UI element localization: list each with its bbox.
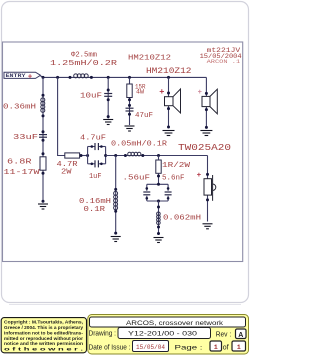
svg-text:Date of Issue :: Date of Issue : bbox=[89, 345, 131, 352]
sheet outer border bbox=[2, 2, 249, 303]
node junction (108.2,77) bbox=[107, 76, 110, 79]
wire woofer1 branch x=168.5 bbox=[168, 77, 170, 128]
svg-text:+: + bbox=[197, 172, 202, 180]
node junction (168.5,77) bbox=[167, 76, 170, 79]
svg-text:11-17W: 11-17W bbox=[4, 169, 41, 177]
node (108,99.7) bbox=[107, 98, 110, 101]
inductor 0.05mH horizontal bbox=[128, 152, 141, 156]
node (207.5,199.9) bbox=[206, 198, 209, 201]
svg-text:Page :: Page : bbox=[175, 345, 203, 352]
svg-text:HM210Z12: HM210Z12 bbox=[128, 54, 171, 62]
svg-text:mitted or reproduced without p: mitted or reproduced without prior bbox=[4, 336, 83, 341]
svg-text:notice and the written permiss: notice and the written permission bbox=[4, 341, 83, 346]
cap bridge .56uF/5.6nF frame bbox=[147, 184, 168, 201]
svg-text:33uF: 33uF bbox=[13, 134, 38, 142]
wire tweeter branch bbox=[207, 156, 209, 222]
node (158.5,184.3) bbox=[157, 183, 160, 186]
svg-text:information not to be edited/t: information not to be edited/trans- bbox=[4, 330, 84, 335]
ground left bbox=[38, 204, 48, 209]
svg-text:1: 1 bbox=[237, 344, 241, 352]
node (43,140) bbox=[42, 139, 45, 142]
node (108,116.6) bbox=[107, 115, 110, 118]
wire top rail bbox=[41, 76, 207, 77]
node (142.8,155.5) bbox=[141, 154, 144, 157]
svg-text:Y12-201/00 - 030: Y12-201/00 - 030 bbox=[128, 331, 197, 338]
svg-text:4W: 4W bbox=[136, 89, 144, 96]
node (158.5,227) bbox=[157, 226, 160, 229]
svg-text:2W: 2W bbox=[61, 169, 72, 177]
svg-text:1R/2W: 1R/2W bbox=[162, 162, 191, 170]
cap bridge 4.7uF/1uF frame bbox=[88, 147, 106, 164]
capacitor 1uF (bottom branch) bbox=[95, 160, 98, 167]
node junction (57.6,77) bbox=[56, 76, 59, 79]
svg-text:47uF: 47uF bbox=[135, 112, 153, 120]
title block yellow panel bbox=[88, 315, 249, 355]
node (158.5,233.5) bbox=[157, 232, 160, 235]
svg-text:0.062mH: 0.062mH bbox=[163, 214, 201, 222]
wire midrange shunt x=115.7 bbox=[115, 156, 117, 235]
node junction (91.4,77) bbox=[90, 76, 93, 79]
inductor 0.062mH vertical bbox=[157, 212, 161, 225]
node (125.4,155.5) bbox=[124, 154, 127, 157]
inductor 0.16mH vertical bbox=[114, 191, 118, 209]
node (158.5,207) bbox=[157, 206, 160, 209]
node (115.7,189.4) bbox=[114, 188, 117, 191]
svg-text:Copyright : M.Tsourtakis, Athe: Copyright : M.Tsourtakis, Athens, bbox=[4, 320, 83, 325]
wire bridge2 to coil bbox=[158, 201, 160, 235]
svg-text:0.36mH: 0.36mH bbox=[3, 103, 36, 111]
node (43,173) bbox=[42, 172, 45, 175]
wire 4.7R to bridge bbox=[80, 155, 88, 157]
svg-text:10uF: 10uF bbox=[80, 93, 102, 101]
node (108,90) bbox=[107, 89, 110, 92]
tweeter TW025A20 bbox=[204, 175, 216, 201]
page box 1 bbox=[210, 341, 222, 351]
wire 1R to bridge2 bbox=[158, 156, 160, 161]
copyright box bbox=[1, 318, 86, 353]
node (158.5,155.5) bbox=[157, 154, 160, 157]
wire zobel branch x=129.5 bbox=[129, 77, 131, 125]
resistor 6.8R vertical bbox=[40, 157, 46, 170]
capacitor .56uF bbox=[143, 192, 150, 195]
wire 10uF branch x=108.2 bbox=[107, 77, 109, 118]
node (207.5,174.4) bbox=[206, 173, 209, 176]
svg-text:of: of bbox=[223, 345, 229, 352]
svg-text:1: 1 bbox=[214, 344, 218, 352]
svg-text:1.25mH/0.2R: 1.25mH/0.2R bbox=[50, 60, 118, 68]
svg-text:0.1R: 0.1R bbox=[84, 206, 106, 214]
svg-text:+: + bbox=[28, 73, 33, 81]
node junction (129.5,77) bbox=[128, 76, 131, 79]
node (206.4,109.6) bbox=[205, 108, 208, 111]
svg-text:ARCON .1: ARCON .1 bbox=[207, 59, 241, 65]
svg-text:6.8R: 6.8R bbox=[7, 159, 32, 167]
speaker HM210Z12 #2 bbox=[202, 89, 217, 114]
svg-text:.56uF: .56uF bbox=[123, 175, 151, 183]
ground 0.062mH bbox=[154, 238, 164, 243]
ground tweeter bbox=[203, 224, 213, 229]
node (115.7,155.5) bbox=[114, 154, 117, 157]
svg-text:ARCOS, crossover network: ARCOS, crossover network bbox=[126, 320, 224, 327]
node (168.5,127) bbox=[167, 126, 170, 129]
node (105.6,155.5) bbox=[104, 154, 107, 157]
resistor 1R/2W vertical bbox=[156, 160, 161, 173]
drawing number box bbox=[118, 328, 211, 339]
svg-text:1uF: 1uF bbox=[89, 173, 102, 181]
node (43,132) bbox=[42, 130, 45, 133]
node (43,116) bbox=[42, 114, 45, 117]
node (158.5,201) bbox=[157, 200, 160, 203]
svg-text:A: A bbox=[238, 332, 243, 339]
date box bbox=[133, 341, 169, 352]
wire left shunt branch x=43 bbox=[42, 77, 44, 201]
svg-text:o f t h e o w n e r: o f t h e o w n e r . bbox=[4, 347, 83, 352]
node (115.7,211.3) bbox=[114, 210, 117, 213]
node (87.6,155.5) bbox=[86, 154, 89, 157]
speaker HM210Z12 #1 bbox=[165, 89, 181, 113]
node (81,155.5) bbox=[80, 154, 83, 157]
svg-text:TW025A20: TW025A20 bbox=[178, 143, 231, 153]
ground 10uF bbox=[103, 120, 113, 125]
node (206.4,127.4) bbox=[205, 126, 208, 129]
resistor 4.7R horizontal bbox=[65, 153, 80, 158]
inductor 0.36mH vertical bbox=[41, 98, 45, 113]
svg-text:5.6nF: 5.6nF bbox=[162, 175, 185, 183]
svg-text:+: + bbox=[159, 87, 164, 97]
svg-text:0.05mH/0.1R: 0.05mH/0.1R bbox=[111, 141, 168, 149]
node junction (43,77) bbox=[42, 76, 45, 79]
resistor 15R bbox=[127, 84, 132, 98]
node (168.5,93) bbox=[167, 92, 170, 95]
svg-text:+: + bbox=[198, 89, 202, 97]
node (43,154) bbox=[42, 152, 45, 155]
node (43,201) bbox=[42, 200, 45, 203]
node (206.4,93.4) bbox=[205, 92, 208, 95]
node junction (70,77) bbox=[69, 76, 72, 79]
node (129.5,114.3) bbox=[128, 113, 131, 116]
capacitor 33uF bbox=[39, 135, 47, 138]
wire bridge to rail2 bbox=[106, 155, 208, 157]
wire woofer2 branch x=206.4 bbox=[205, 77, 207, 128]
capacitor 5.6nF bbox=[165, 192, 172, 195]
connector J1 ENTRY+ bbox=[4, 72, 41, 81]
node (129.5,105.4) bbox=[128, 104, 131, 107]
schematic frame bbox=[3, 42, 243, 262]
node (129.5,99.7) bbox=[128, 98, 131, 101]
svg-text:Rev :: Rev : bbox=[216, 331, 232, 338]
node cap terminals bridge2 bbox=[146, 187, 149, 190]
svg-text:4.7uF: 4.7uF bbox=[80, 134, 106, 142]
node (168.5,108.6) bbox=[167, 107, 170, 110]
wire mid feeder x=57.6 bbox=[58, 77, 65, 155]
ground woofer1 bbox=[163, 131, 175, 136]
inductor L1 1.25mH horizontal bbox=[74, 74, 89, 78]
ground 0.16mH bbox=[111, 237, 121, 242]
svg-text:Drawing :: Drawing : bbox=[89, 330, 117, 337]
svg-text:0.16mH: 0.16mH bbox=[79, 198, 111, 206]
svg-text:ENTRY: ENTRY bbox=[6, 72, 27, 79]
sheet border inner shadow line bbox=[9, 304, 241, 306]
ground woofer2 bbox=[200, 131, 212, 136]
svg-text:15/05/04: 15/05/04 bbox=[136, 344, 165, 351]
svg-text:Φ2.5mm: Φ2.5mm bbox=[71, 51, 98, 59]
svg-text:HM210Z12: HM210Z12 bbox=[146, 68, 192, 76]
capacitor 4.7uF (top branch) bbox=[95, 143, 98, 150]
title box ARCOS bbox=[90, 317, 246, 327]
page box total 1 bbox=[232, 341, 246, 351]
node (43,95) bbox=[42, 94, 45, 97]
svg-text:Greece / 2004. This is a propr: Greece / 2004. This is a proprietary bbox=[4, 325, 83, 330]
node (158.5,176) bbox=[157, 175, 160, 178]
ground zobel bbox=[125, 126, 135, 131]
node caps terminals bbox=[91, 145, 94, 148]
capacitor 10uF bbox=[104, 94, 112, 97]
capacitor 47uF bbox=[126, 108, 134, 111]
node (115.7,233.1) bbox=[114, 232, 117, 235]
rev box A bbox=[236, 329, 247, 339]
